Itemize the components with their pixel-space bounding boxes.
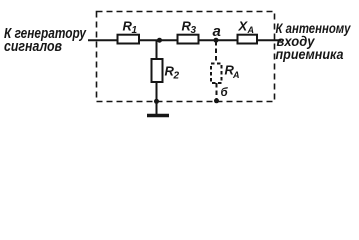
label R2 [165,64,180,82]
svg-text:A: A [247,25,255,35]
wire RA to node b (dashed) [216,83,218,100]
label XA [238,19,255,36]
label R1 [123,19,138,37]
node junction on bottom edge [154,99,159,104]
label RA [225,63,240,81]
wire main horizontal [88,39,282,41]
resistor R1 [118,35,140,44]
node junction dot R2 branch [157,38,162,43]
svg-text:A: A [232,70,240,80]
node a [214,38,219,43]
svg-text:1: 1 [132,25,138,36]
wire node a to RA (dashed) [215,41,217,64]
ground [147,114,169,118]
reactance XA [238,35,258,44]
wire R2 to ground [156,82,158,114]
node b dot [214,98,219,103]
resistor R2 [152,59,163,82]
svg-text:3: 3 [191,25,197,36]
resistor RA (dashed equivalent) [211,64,222,84]
resistor R3 [178,35,199,44]
wire R2 branch vertical [156,40,158,59]
svg-text:приемника: приемника [276,46,344,62]
svg-text:сигналов: сигналов [4,38,62,55]
dashed enclosure box [97,12,275,102]
label R3 [182,19,197,37]
svg-text:2: 2 [173,71,180,82]
svg-text:б: б [221,87,229,99]
svg-text:a: a [213,23,221,40]
